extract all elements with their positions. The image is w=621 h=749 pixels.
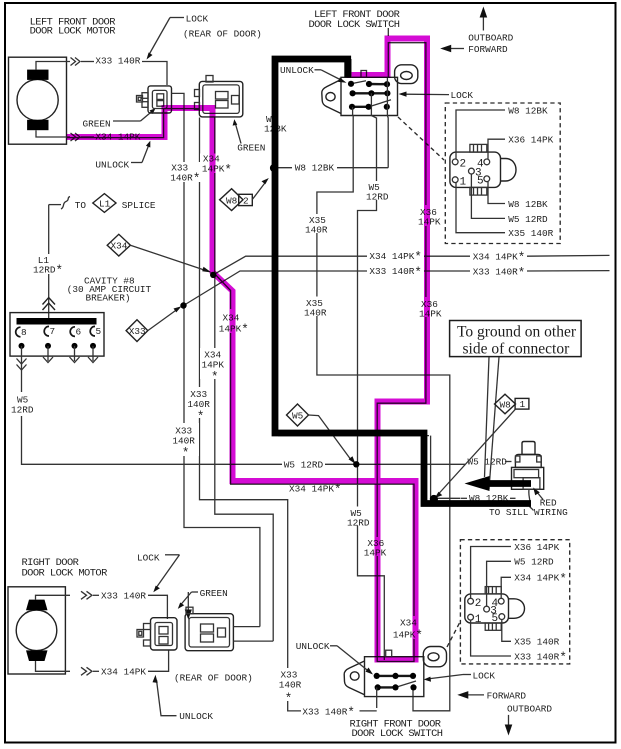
svg-text:TO: TO [75, 200, 87, 211]
svg-text:(REAR OF DOOR): (REAR OF DOOR) [174, 672, 253, 683]
svg-text:OUTBOARD: OUTBOARD [468, 32, 513, 43]
svg-text:X36 14PK: X36 14PK [514, 542, 559, 553]
svg-text:LOCK: LOCK [137, 552, 160, 563]
svg-text:1: 1 [460, 176, 467, 188]
svg-text:*: * [211, 370, 219, 384]
svg-text:side of connector: side of connector [463, 341, 571, 358]
svg-text:UNLOCK: UNLOCK [296, 641, 330, 652]
svg-text:LOCK: LOCK [473, 670, 496, 681]
svg-text:LOCK: LOCK [451, 90, 474, 101]
svg-text:(REAR OF DOOR): (REAR OF DOOR) [183, 29, 262, 40]
svg-text:X34 14PK: X34 14PK [101, 666, 146, 677]
svg-text:GREEN: GREEN [200, 588, 228, 599]
svg-text:X35 140R: X35 140R [508, 228, 553, 239]
svg-text:W5 12RD: W5 12RD [468, 456, 508, 467]
svg-text:SPLICE: SPLICE [122, 200, 156, 211]
svg-text:X33: X33 [129, 326, 146, 337]
svg-text:140R: 140R [304, 307, 327, 318]
svg-text:2: 2 [243, 195, 249, 206]
svg-text:W8 12BK: W8 12BK [508, 199, 548, 210]
svg-text:1: 1 [475, 614, 482, 626]
svg-text:X33 140R: X33 140R [101, 590, 146, 601]
svg-text:7: 7 [50, 326, 56, 337]
svg-text:14PK: 14PK [202, 359, 225, 370]
svg-text:FORWARD: FORWARD [487, 690, 527, 701]
svg-text:W5 12RD: W5 12RD [508, 214, 548, 225]
svg-text:*: * [182, 447, 190, 461]
svg-text:FORWARD: FORWARD [468, 44, 508, 55]
svg-text:DOOR LOCK SWITCH: DOOR LOCK SWITCH [309, 19, 400, 31]
svg-text:OUTBOARD: OUTBOARD [507, 703, 552, 714]
svg-text:X33 140R: X33 140R [95, 56, 140, 67]
svg-text:12RD: 12RD [366, 192, 389, 203]
svg-text:12RD: 12RD [11, 405, 34, 416]
svg-text:W5 12RD: W5 12RD [514, 557, 554, 568]
svg-text:140R: 140R [305, 224, 328, 235]
svg-text:UNLOCK: UNLOCK [95, 159, 129, 170]
svg-text:GREEN: GREEN [237, 142, 265, 153]
svg-text:TO SILL WIRING: TO SILL WIRING [489, 507, 568, 518]
svg-text:140R: 140R [187, 399, 210, 410]
svg-text:W8 12BK: W8 12BK [508, 105, 548, 116]
svg-text:DOOR LOCK SWITCH: DOOR LOCK SWITCH [352, 728, 443, 740]
svg-text:GREEN: GREEN [83, 118, 111, 129]
svg-text:6: 6 [76, 326, 82, 337]
svg-text:5: 5 [492, 613, 499, 625]
svg-text:W8 12BK: W8 12BK [295, 163, 335, 174]
svg-text:W8: W8 [500, 400, 512, 411]
svg-text:5: 5 [96, 326, 102, 337]
svg-text:BREAKER): BREAKER) [86, 293, 131, 304]
svg-text:*: * [197, 410, 205, 424]
svg-text:1: 1 [520, 399, 526, 410]
svg-text:L1: L1 [99, 199, 111, 210]
svg-text:DOOR LOCK MOTOR: DOOR LOCK MOTOR [22, 568, 108, 580]
svg-text:W5: W5 [292, 411, 304, 422]
svg-text:2: 2 [475, 598, 482, 610]
svg-text:140R: 140R [172, 436, 195, 447]
svg-text:UNLOCK: UNLOCK [179, 711, 213, 722]
svg-text:To ground on other: To ground on other [457, 324, 577, 341]
svg-text:W5 12RD: W5 12RD [284, 459, 324, 470]
svg-text:UNLOCK: UNLOCK [280, 65, 314, 76]
svg-text:2: 2 [460, 159, 467, 171]
svg-text:12RD: 12RD [347, 517, 370, 528]
svg-text:140R: 140R [279, 679, 302, 690]
svg-text:8: 8 [21, 327, 27, 338]
svg-text:DOOR LOCK MOTOR: DOOR LOCK MOTOR [30, 25, 116, 37]
svg-text:5: 5 [477, 175, 484, 187]
svg-text:W8: W8 [226, 195, 238, 206]
svg-text:LOCK: LOCK [186, 14, 209, 25]
svg-text:*: * [285, 692, 293, 706]
svg-text:X35 140R: X35 140R [514, 637, 559, 648]
svg-text:X34: X34 [111, 241, 128, 252]
svg-text:14PK: 14PK [419, 308, 442, 319]
svg-text:X36 14PK: X36 14PK [508, 135, 553, 146]
